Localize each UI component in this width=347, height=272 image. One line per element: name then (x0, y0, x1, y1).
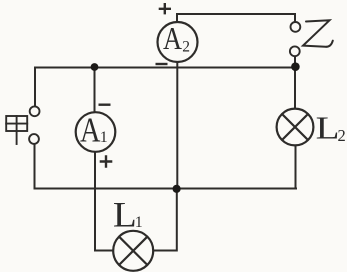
svg-text:1: 1 (100, 129, 108, 146)
node junction dot at switch/L2 branch (291, 62, 300, 71)
ammeter A1 (76, 112, 116, 152)
label jia (Chinese character for terminal A) (6, 116, 27, 144)
lamp L2 (277, 109, 314, 146)
wire left vertical lower (terminal jia bottom to bottom bus) (34, 144, 36, 189)
wire top horizontal to switch (177, 14, 295, 22)
label minus of A1 (99, 103, 111, 105)
wire A1 bottom lead through bus to L1 left lead (95, 152, 113, 251)
wire switch bottom terminal to junction (294, 56, 296, 64)
terminal jia bottom circle (29, 134, 39, 144)
svg-text:A: A (163, 20, 182, 56)
node junction dot on bottom bus (173, 185, 181, 193)
label plus of A1 (100, 155, 113, 168)
terminal jia top circle (30, 106, 40, 116)
label minus of A2 (156, 63, 168, 65)
svg-text:2: 2 (338, 126, 346, 145)
terminal switch top circle (291, 22, 301, 32)
node junction dot on top bus (A1 branch) (91, 63, 99, 71)
label yi (Chinese character for terminal B) (303, 20, 333, 47)
svg-text:L: L (113, 195, 137, 235)
label L2 (316, 111, 346, 146)
wire left vertical upper (bus to terminal jia top) (34, 68, 36, 107)
wire A2 top lead (176, 14, 178, 22)
svg-text:2: 2 (182, 39, 190, 56)
label plus of A2 (159, 3, 171, 14)
wire L2 top lead (294, 69, 296, 109)
wire middle vertical (A2 bottom through top bus to bottom junction) (176, 62, 178, 189)
wire bottom bus (35, 188, 297, 190)
svg-text:1: 1 (135, 214, 143, 231)
terminal switch bottom circle (290, 46, 300, 56)
ammeter A2 (158, 20, 198, 62)
wire top bus (negative bus, y=67.5) (35, 67, 295, 69)
lamp L1 (113, 231, 153, 271)
wire A1 top lead (94, 68, 96, 113)
wire L2 bottom lead (295, 145, 297, 188)
wire L1 right lead up to junction (153, 189, 177, 251)
svg-text:L: L (316, 111, 340, 146)
label L1 (113, 195, 143, 235)
svg-text:A: A (80, 112, 101, 150)
